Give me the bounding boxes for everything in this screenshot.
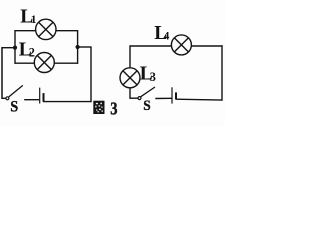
wire: L1 branch left segment [15,30,36,32]
battery B1 positive plate (long thin) [39,88,41,104]
wire: left vertical from top rail to L3 [129,45,131,68]
switch S (right) pivot circle [138,97,141,100]
wire: L3 lower stub vertical [129,88,131,99]
wire: battery to switch segment [24,99,39,101]
svg-text:3: 3 [110,98,117,119]
node: right junction dot [76,45,80,49]
lamp L2 [34,53,54,73]
svg-text:1: 1 [31,14,37,26]
lamp L1 [36,19,56,39]
wire: top rail left segment [130,45,172,47]
wire: stub from L3 leg to switch [129,97,138,99]
wire: right inner vertical joining L1 and L2 branches [77,30,79,64]
wire: short stub to switch [2,97,6,99]
svg-text:S: S [143,97,150,114]
wire: left outer vertical [1,47,3,99]
wire: left stub at junction row [2,47,15,49]
node: left junction dot [13,46,17,50]
svg-text:2: 2 [29,45,35,59]
wire: left inner vertical joining L1 and L2 branches [14,30,16,64]
switch S (right) lever [141,87,155,97]
battery B2 negative plate (short thick) [175,92,177,99]
wire: bottom rail right of battery [176,98,223,101]
battery B1 negative plate (short thick) [43,93,45,102]
wire: L2 branch right segment [54,62,77,64]
switch S (left) lever [9,85,23,97]
battery B2 positive plate (long thin) [171,87,173,103]
svg-text:4: 4 [164,31,170,43]
svg-text:3: 3 [150,70,156,84]
lamp L4 [171,35,191,55]
lamp L3 [120,68,140,88]
wire: top rail right segment [191,45,222,47]
wire: L2 branch left segment [15,62,34,64]
wire: bottom rail right of battery [43,101,92,103]
wire: junction to right rail [78,46,92,48]
wire: right rail vertical [90,46,92,102]
wire: L1 branch right segment [56,30,78,32]
caption character 图 (drawn) [93,101,104,114]
switch S (left) pivot circle [6,97,9,100]
svg-text:S: S [10,98,18,116]
wire: battery to switch segment [155,97,171,99]
wire: right outer vertical [221,45,223,100]
